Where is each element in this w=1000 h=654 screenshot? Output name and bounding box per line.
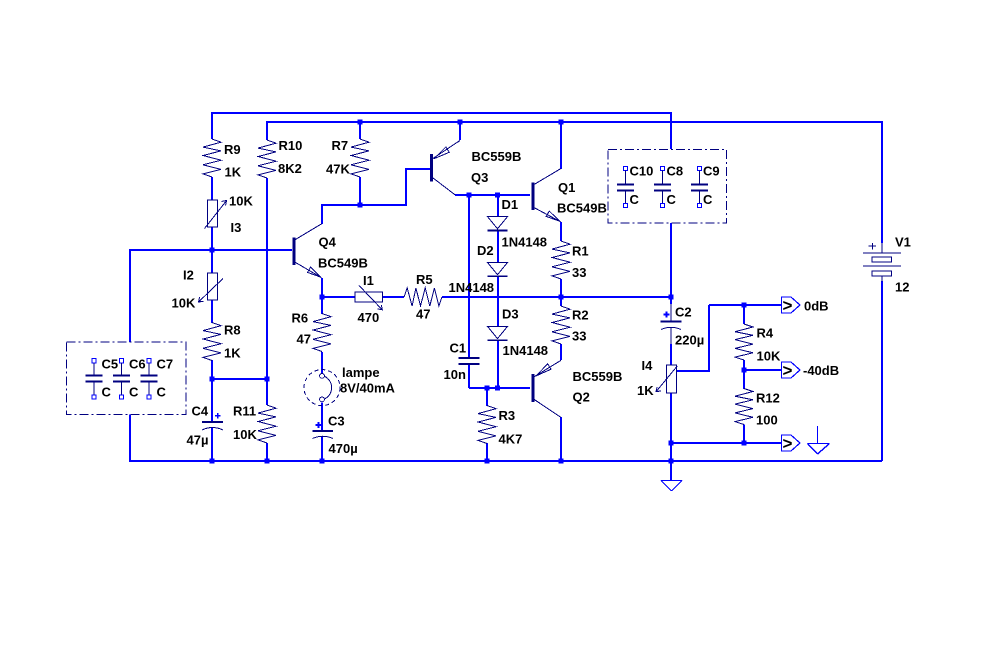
svg-text:C5: C5 bbox=[102, 357, 119, 372]
svg-text:R3: R3 bbox=[499, 408, 516, 423]
svg-text:1K: 1K bbox=[224, 346, 241, 361]
wire link up to Q3 base bbox=[406, 169, 430, 206]
battery V1 bbox=[863, 243, 901, 282]
svg-text:47: 47 bbox=[416, 307, 430, 322]
svg-text:100: 100 bbox=[756, 413, 778, 428]
wire Q3 emitter stub bbox=[459, 121, 461, 140]
wire battery bottom drop bbox=[881, 281, 883, 461]
wire R4 top stub bbox=[743, 305, 745, 324]
svg-text:R4: R4 bbox=[757, 326, 774, 341]
wire lamp to C3 bbox=[321, 402, 323, 431]
wire R8 to C4 bbox=[211, 360, 213, 422]
svg-text:47: 47 bbox=[297, 332, 311, 347]
capacitor C4 bbox=[202, 413, 223, 430]
wire I4 wiper tap bbox=[676, 305, 709, 371]
svg-text:C8: C8 bbox=[667, 164, 684, 179]
dashed box C5 C6 C7 bbox=[67, 342, 186, 415]
svg-text:10K: 10K bbox=[757, 349, 781, 364]
wire mid rail right bbox=[442, 296, 671, 298]
svg-text:Q2: Q2 bbox=[573, 390, 590, 405]
wire left vertical lower bbox=[129, 414, 131, 462]
wire C4 to rail bbox=[211, 428, 213, 461]
wire R4 bottom bbox=[743, 360, 745, 370]
svg-text:C: C bbox=[630, 192, 640, 207]
svg-text:BC559B: BC559B bbox=[573, 369, 623, 384]
resistor R7 bbox=[351, 139, 369, 177]
svg-text:33: 33 bbox=[572, 329, 586, 344]
wire I2 to R8 bbox=[211, 300, 213, 323]
svg-text:1N4148: 1N4148 bbox=[503, 343, 549, 358]
node C3 rail bbox=[320, 459, 325, 464]
svg-text:D2: D2 bbox=[477, 243, 494, 258]
wire battery top drop bbox=[881, 121, 883, 243]
transistor Q1 bbox=[532, 169, 561, 222]
resistor R11 bbox=[258, 405, 276, 443]
node Q2 collector rail bbox=[559, 459, 564, 464]
node Q4 emitter bbox=[320, 295, 325, 300]
svg-text:C: C bbox=[667, 192, 677, 207]
wire C1 top branch bbox=[468, 195, 470, 358]
wire -40dB line bbox=[744, 369, 782, 371]
svg-text:0dB: 0dB bbox=[804, 299, 829, 314]
wire C2 to I4 bbox=[670, 328, 672, 344]
wire C2 top stub bbox=[670, 297, 672, 304]
svg-text:8V/40mA: 8V/40mA bbox=[340, 381, 396, 396]
node R4 bottom bbox=[742, 368, 747, 373]
svg-text:R1: R1 bbox=[572, 244, 589, 259]
wire R3 to rail bbox=[486, 443, 488, 461]
svg-text:-40dB: -40dB bbox=[803, 363, 839, 378]
svg-text:C6: C6 bbox=[129, 357, 146, 372]
svg-text:I1: I1 bbox=[363, 273, 374, 288]
svg-text:10K: 10K bbox=[172, 296, 196, 311]
node D1 top bbox=[495, 193, 500, 198]
svg-text:33: 33 bbox=[572, 265, 586, 280]
node R11 rail bbox=[265, 459, 270, 464]
capacitor C10 bbox=[617, 166, 634, 207]
wire rail1 drop to cap box bbox=[670, 112, 672, 149]
svg-text:>: > bbox=[783, 434, 793, 453]
wire R7 bottom bbox=[359, 177, 361, 205]
wire rail2 top bbox=[267, 121, 882, 123]
node R7 bottom bbox=[358, 203, 363, 208]
node R4 top bbox=[742, 303, 747, 308]
transistor Q2 bbox=[532, 360, 561, 417]
svg-text:R11: R11 bbox=[233, 404, 256, 419]
capacitor C2 bbox=[661, 304, 682, 330]
node Q3 emitter rail bbox=[458, 120, 463, 125]
node R3 rail bbox=[485, 459, 490, 464]
wire to Q2 base bbox=[469, 387, 530, 389]
resistor R2 bbox=[552, 306, 570, 344]
wire R2 top stub bbox=[560, 297, 562, 306]
wire mid rail left bbox=[322, 296, 355, 298]
capacitor C6 bbox=[113, 359, 130, 399]
svg-text:47µ: 47µ bbox=[187, 433, 209, 448]
capacitor C1 bbox=[459, 358, 480, 364]
wire R11 to rail bbox=[266, 443, 268, 461]
wire R10 top stub bbox=[266, 121, 268, 140]
wire C1 bottom bbox=[468, 365, 470, 389]
svg-text:BC549B: BC549B bbox=[318, 256, 368, 271]
wire R3 top stub bbox=[486, 388, 488, 406]
svg-text:Q4: Q4 bbox=[319, 235, 337, 250]
wire Q4 base bbox=[129, 249, 292, 251]
svg-text:C: C bbox=[129, 385, 139, 400]
resistor R5 bbox=[404, 288, 442, 306]
svg-text:C1: C1 bbox=[450, 341, 467, 356]
node C2 top bbox=[669, 295, 674, 300]
svg-text:47K: 47K bbox=[326, 162, 350, 177]
svg-text:1N4148: 1N4148 bbox=[449, 280, 495, 295]
potentiometer I2 bbox=[199, 273, 224, 302]
potentiometer I4 bbox=[656, 365, 677, 393]
svg-text:C4: C4 bbox=[192, 404, 209, 419]
node C1 top bbox=[467, 193, 472, 198]
resistor R3 bbox=[478, 406, 496, 444]
wire R8-R11 link bbox=[212, 378, 267, 380]
svg-text:12: 12 bbox=[895, 280, 909, 295]
resistor R9 bbox=[203, 139, 221, 177]
svg-text:C7: C7 bbox=[157, 357, 174, 372]
svg-text:R2: R2 bbox=[572, 308, 589, 323]
capacitor C3 bbox=[313, 422, 334, 439]
connector flag 0dB bbox=[782, 297, 801, 313]
diode D2 bbox=[488, 263, 508, 277]
svg-text:R10: R10 bbox=[279, 138, 303, 153]
wire rail1 below cap box to C2 node bbox=[670, 223, 672, 297]
wire Q3 collector to Q1 base bbox=[455, 194, 530, 196]
resistor R12 bbox=[735, 389, 753, 425]
svg-text:1N4148: 1N4148 bbox=[502, 235, 548, 250]
wire D1-D2 bbox=[497, 231, 499, 263]
svg-text:C9: C9 bbox=[703, 164, 720, 179]
wire C3 to rail bbox=[321, 437, 323, 461]
wire gnd flag line bbox=[671, 442, 782, 444]
potentiometer I1 bbox=[355, 286, 383, 310]
wire D1 top stub bbox=[497, 195, 499, 217]
resistor R10 bbox=[258, 140, 276, 178]
wire R10 to R11 bbox=[266, 178, 268, 405]
wire I4 to ground bbox=[670, 393, 672, 480]
resistor R8 bbox=[203, 323, 221, 361]
resistor R6 bbox=[313, 314, 331, 352]
svg-text:C: C bbox=[102, 385, 112, 400]
resistor R4 bbox=[735, 324, 753, 360]
node D3 bottom bbox=[495, 386, 500, 391]
svg-text:1K: 1K bbox=[637, 383, 654, 398]
svg-text:10K: 10K bbox=[229, 194, 253, 209]
connector flag -40dB bbox=[782, 362, 801, 378]
svg-text:C2: C2 bbox=[675, 305, 692, 320]
capacitor C5 bbox=[86, 359, 103, 399]
svg-text:R5: R5 bbox=[416, 272, 433, 287]
svg-text:4K7: 4K7 bbox=[499, 432, 523, 447]
svg-text:R8: R8 bbox=[224, 323, 241, 338]
svg-text:C: C bbox=[703, 192, 713, 207]
svg-text:BC559B: BC559B bbox=[472, 149, 522, 164]
svg-text:Q1: Q1 bbox=[558, 180, 575, 195]
wire left vertical upper bbox=[129, 250, 131, 342]
wire R4-R12 link bbox=[743, 370, 745, 389]
wire I1 to R5 bbox=[382, 296, 404, 298]
svg-text:I3: I3 bbox=[231, 220, 242, 235]
potentiometer I3 bbox=[205, 200, 227, 229]
capacitor C7 bbox=[141, 359, 158, 399]
wire R12 bottom bbox=[743, 425, 745, 444]
wire Q1 emitter to R1 bbox=[560, 222, 562, 241]
wire rail1 top bbox=[212, 112, 671, 114]
svg-text:R7: R7 bbox=[332, 138, 349, 153]
svg-text:lampe: lampe bbox=[342, 365, 380, 380]
svg-text:R12: R12 bbox=[756, 391, 780, 406]
node I4 bottom bbox=[669, 441, 674, 446]
diode D3 bbox=[488, 326, 508, 340]
resistor R1 bbox=[552, 241, 570, 279]
svg-text:R9: R9 bbox=[224, 142, 241, 157]
capacitor C8 bbox=[654, 166, 671, 207]
wire Q4 emitter drop bbox=[321, 278, 323, 297]
svg-text:10n: 10n bbox=[444, 367, 466, 382]
node R12 bottom bbox=[742, 441, 747, 446]
svg-text:C3: C3 bbox=[328, 414, 345, 429]
wire 0dB line bbox=[709, 304, 782, 306]
svg-text:D1: D1 bbox=[502, 197, 519, 212]
wire R1 to mid rail bbox=[560, 279, 562, 297]
svg-text:BC549B: BC549B bbox=[557, 201, 607, 216]
lamp lampe bbox=[304, 370, 340, 406]
node R3 top bbox=[485, 386, 490, 391]
svg-text:D3: D3 bbox=[502, 307, 519, 322]
wire I3 to I2 bbox=[211, 227, 213, 273]
svg-text:C: C bbox=[157, 385, 167, 400]
svg-text:470µ: 470µ bbox=[329, 441, 358, 456]
node ground rail bbox=[669, 459, 674, 464]
wire R6 to lamp bbox=[321, 352, 323, 373]
ground symbol near output flag bbox=[808, 426, 830, 454]
svg-text:R6: R6 bbox=[292, 311, 309, 326]
node R1 R2 bbox=[559, 295, 564, 300]
diode D1 bbox=[488, 217, 508, 231]
svg-text:1K: 1K bbox=[225, 165, 242, 180]
wire D3 bottom bbox=[497, 341, 499, 389]
svg-text:>: > bbox=[783, 361, 793, 380]
wire Q1 collector stub bbox=[560, 121, 562, 169]
node Q4 base bbox=[210, 248, 215, 253]
svg-text:>: > bbox=[783, 296, 793, 315]
svg-text:C10: C10 bbox=[630, 164, 654, 179]
transistor Q4 bbox=[293, 224, 322, 278]
wire Q4 collector link bbox=[322, 205, 406, 224]
wire R9 to I3 bbox=[211, 177, 213, 200]
node R8 bottom bbox=[210, 377, 215, 382]
wire R2 to Q2 emitter bbox=[560, 344, 562, 360]
svg-text:I2: I2 bbox=[183, 268, 194, 283]
wire D2-D3 bbox=[497, 277, 499, 327]
node C4 rail bbox=[210, 459, 215, 464]
svg-text:I4: I4 bbox=[642, 358, 654, 373]
transistor Q3 bbox=[430, 141, 460, 196]
wire R7 top stub bbox=[359, 122, 361, 139]
svg-text:8K2: 8K2 bbox=[278, 161, 302, 176]
svg-text:Q3: Q3 bbox=[471, 170, 488, 185]
svg-text:V1: V1 bbox=[895, 235, 911, 250]
node R7 top bbox=[358, 120, 363, 125]
svg-text:220µ: 220µ bbox=[675, 333, 704, 348]
ground below C2 column bbox=[661, 481, 682, 492]
capacitor C9 bbox=[691, 166, 708, 207]
node R11 top bbox=[265, 377, 270, 382]
wire R6 top stub bbox=[321, 297, 323, 314]
wire Q2 collector drop bbox=[560, 417, 562, 461]
svg-text:470: 470 bbox=[358, 310, 380, 325]
node Q1 collector rail bbox=[559, 120, 564, 125]
wire bottom rail bbox=[130, 460, 882, 462]
connector flag ground out bbox=[782, 435, 801, 451]
dashed box C10 C8 C9 bbox=[608, 150, 727, 224]
svg-text:10K: 10K bbox=[233, 427, 257, 442]
wire R9 top stub bbox=[211, 112, 213, 139]
